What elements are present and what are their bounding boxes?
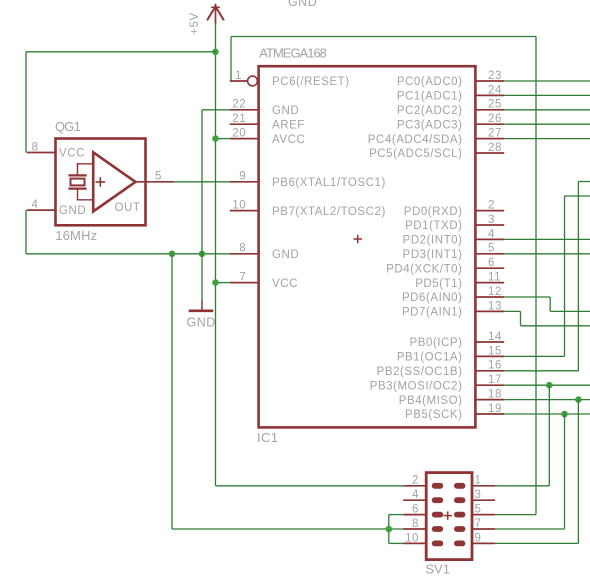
- svg-text:3: 3: [475, 489, 482, 501]
- svg-text:18: 18: [488, 389, 502, 401]
- wire ADC net y=109.8: [504, 109, 590, 111]
- IC1 pin 17 PB3(MOSI/OC2) stub: [475, 384, 504, 386]
- ground symbol GND (middle): [187, 301, 216, 330]
- IC1 pin 6 PD4(XCK/T0) stub: [475, 267, 504, 269]
- IC1 pin 4 PD2(INT0) stub: [475, 238, 504, 240]
- svg-text:AVCC: AVCC: [272, 134, 305, 146]
- svg-text:20: 20: [232, 128, 246, 140]
- svg-text:PD2(INT0): PD2(INT0): [403, 235, 463, 247]
- svg-text:+5V: +5V: [189, 12, 201, 34]
- wire GND bottom run to SV1 pin 8: [172, 528, 403, 530]
- svg-text:12: 12: [488, 286, 502, 298]
- svg-text:5: 5: [155, 171, 162, 183]
- wire RESET top run: [231, 36, 536, 38]
- svg-text:2: 2: [412, 475, 419, 487]
- wire RESET up from pin 1: [230, 37, 232, 82]
- svg-text:PB5(SCK): PB5(SCK): [405, 409, 462, 421]
- IC1 pin 25 PC2(ADC2) stub: [475, 109, 504, 111]
- junction SV1 GND: [386, 526, 393, 533]
- svg-text:PB4(MISO): PB4(MISO): [399, 395, 463, 407]
- IC1 pin 22 GND stub: [230, 109, 259, 111]
- wire QG1 pin4 to GND net: [25, 210, 27, 254]
- svg-text:PD0(RXD): PD0(RXD): [404, 206, 463, 218]
- SV1 pin 1 stub: [472, 485, 495, 487]
- svg-text:GND: GND: [272, 249, 299, 261]
- svg-text:PD1(TXD): PD1(TXD): [405, 220, 462, 232]
- wire PB1/OC1A net: [504, 355, 564, 357]
- op IC1 ATMEGA168 body: [259, 66, 476, 427]
- wire pin22 drop to GND symbol: [201, 110, 203, 301]
- svg-text:GND: GND: [187, 316, 216, 330]
- svg-text:AREF: AREF: [272, 119, 305, 131]
- svg-text:15: 15: [488, 345, 502, 357]
- svg-text:PC4(ADC4/SDA): PC4(ADC4/SDA): [368, 134, 463, 146]
- IC1 pin 26 PC3(ADC3) stub: [475, 123, 504, 125]
- wire left drop to QG1 pin 8: [25, 52, 27, 153]
- IC1 pin 11 PD5(T1) stub: [475, 282, 504, 284]
- wire RESET to SV1 pin 5: [495, 514, 536, 516]
- svg-text:25: 25: [488, 99, 502, 111]
- IC1 pin 5 PD3(INT1) stub: [475, 253, 504, 255]
- svg-text:8: 8: [32, 141, 39, 153]
- svg-text:26: 26: [488, 113, 502, 125]
- svg-text:PC0(ADC0): PC0(ADC0): [397, 76, 463, 88]
- SV1 pin 5 stub: [472, 514, 495, 516]
- wire PB2/SS net: [504, 370, 578, 372]
- svg-text:10: 10: [405, 532, 419, 544]
- IC1 pin 2 PD0(RXD) stub: [475, 210, 504, 212]
- wire QG1 OUT to XTAL1: [174, 181, 230, 183]
- wire ADC net y=95.4: [504, 94, 590, 96]
- svg-text:QG1: QG1: [55, 119, 81, 134]
- SV1 pin 6 pad: [432, 512, 443, 518]
- wire +5V to QG1 VCC top run: [26, 51, 216, 53]
- junction MISO: [575, 396, 582, 403]
- svg-text:17: 17: [488, 374, 502, 386]
- svg-text:10: 10: [232, 200, 246, 212]
- SV1 pin 6 stub: [403, 514, 426, 516]
- svg-text:PC6(/RESET): PC6(/RESET): [272, 76, 350, 88]
- QG1 pin 5 OUT stub: [136, 181, 175, 183]
- svg-text:PD5(T1): PD5(T1): [415, 278, 462, 290]
- wire GND drop to SV1 row: [171, 254, 173, 529]
- svg-text:GND: GND: [59, 205, 86, 217]
- wire PD2 net: [504, 238, 590, 240]
- svg-text:VCC: VCC: [59, 147, 85, 159]
- SV1 pin 4 pad: [432, 497, 443, 503]
- IC1 pin 3 PD1(TXD) stub: [475, 224, 504, 226]
- IC1 pin 12 PD6(AIN0) stub: [475, 296, 504, 298]
- IC1 pin 20 AVCC stub: [230, 138, 259, 140]
- wire MISO drop to SV1 pin 9: [577, 400, 579, 544]
- svg-text:PB7(XTAL2/TOSC2): PB7(XTAL2/TOSC2): [272, 206, 386, 218]
- QG1 plus mark: [96, 178, 104, 186]
- svg-text:4: 4: [412, 489, 419, 501]
- svg-text:28: 28: [488, 142, 502, 154]
- IC1 pin 10 PB7(XTAL2/TOSC2) stub: [230, 210, 259, 212]
- wire IC GND pin22 branch: [202, 109, 230, 111]
- junction SCK: [561, 411, 568, 418]
- svg-text:19: 19: [488, 403, 502, 415]
- svg-text:24: 24: [488, 84, 502, 96]
- svg-text:5: 5: [488, 243, 495, 255]
- SV1 pin 1 pad: [454, 483, 465, 489]
- wire AVCC branch: [216, 138, 230, 140]
- IC1 pin 8 GND stub: [230, 253, 259, 255]
- wire SCK drop to SV1 pin 7: [564, 414, 566, 529]
- wire ADC net y=124.2: [504, 123, 590, 125]
- svg-text:IC1: IC1: [257, 430, 278, 445]
- svg-text:23: 23: [488, 70, 502, 82]
- SV1 pin 9 stub: [472, 542, 495, 544]
- SV1 pin 9 pad: [454, 541, 465, 547]
- IC1 pin 9 PB6(XTAL1/TOSC1) stub: [230, 181, 259, 183]
- SV1 pin 8 stub: [403, 528, 426, 530]
- svg-text:14: 14: [488, 331, 502, 343]
- wire +5V rail vertical: [215, 52, 217, 486]
- svg-text:PC3(ADC3): PC3(ADC3): [397, 119, 463, 131]
- svg-text:PB3(MOSI/OC2): PB3(MOSI/OC2): [370, 380, 463, 392]
- svg-text:22: 22: [232, 99, 246, 111]
- SV1 pin 2 stub: [403, 485, 426, 487]
- IC1 pin 28 PC5(ADC5/SCL) stub: [475, 152, 504, 154]
- svg-text:ATMEGA168: ATMEGA168: [259, 45, 326, 60]
- svg-text:21: 21: [232, 113, 246, 125]
- SV1 GND link pins 6-10: [388, 515, 390, 544]
- IC1 pin 24 PC1(ADC1) stub: [475, 94, 504, 96]
- wire GND net horizontal run: [26, 253, 230, 255]
- svg-text:SV1: SV1: [425, 562, 450, 577]
- svg-text:16: 16: [488, 360, 502, 372]
- svg-text:OUT: OUT: [115, 202, 141, 214]
- IC1 pin 1 PC6(/RESET) stub + bubble: [230, 80, 248, 82]
- SV1 pin 7 stub: [472, 528, 495, 530]
- wire PD7 net jog: [504, 310, 520, 312]
- svg-text:6: 6: [488, 257, 495, 269]
- wire RESET right drop: [535, 37, 537, 515]
- svg-text:PB6(XTAL1/TOSC1): PB6(XTAL1/TOSC1): [272, 177, 386, 189]
- svg-text:2: 2: [488, 200, 495, 212]
- QG1 pin 4 GND stub: [27, 209, 56, 211]
- wire PD3 net: [504, 253, 590, 255]
- wire MOSI drop to SV1 pin 1: [548, 385, 550, 486]
- SV1 pin 3 pad: [454, 497, 465, 503]
- SV1 pin 10 pad: [432, 541, 443, 547]
- svg-text:PD6(AIN0): PD6(AIN0): [402, 292, 463, 304]
- wire ADC net y=138.6: [504, 138, 590, 140]
- svg-text:PB1(OC1A): PB1(OC1A): [397, 352, 463, 364]
- svg-text:GND: GND: [272, 105, 299, 117]
- wire VCC pin7 branch: [216, 282, 230, 284]
- SV1 pin 7 pad: [454, 526, 465, 532]
- wire PB3/MOSI net: [504, 384, 590, 386]
- svg-text:PC1(ADC1): PC1(ADC1): [397, 91, 463, 103]
- IC1 pin 19 PB5(SCK) stub: [475, 413, 504, 415]
- svg-text:5: 5: [475, 504, 482, 516]
- QG1 pin 8 VCC stub: [27, 152, 56, 154]
- svg-text:1: 1: [235, 70, 242, 82]
- SV1 pin 3 stub: [472, 499, 495, 501]
- wire +5V to SV1 pin 2: [216, 485, 404, 487]
- svg-text:8: 8: [412, 518, 419, 530]
- IC1 pin 16 PB2(SS/OC1B) stub: [475, 370, 504, 372]
- svg-text:PD4(XCK/T0): PD4(XCK/T0): [386, 263, 462, 275]
- svg-text:8: 8: [239, 243, 246, 255]
- QG1 crystal element: [70, 164, 94, 200]
- svg-text:9: 9: [239, 171, 246, 183]
- svg-text:9: 9: [475, 532, 482, 544]
- svg-text:GND: GND: [288, 0, 317, 9]
- QG1 amplifier triangle: [93, 152, 135, 211]
- IC1 pin 27 PC4(ADC4/SDA) stub: [475, 138, 504, 140]
- SV1 pin 5 pad: [454, 512, 465, 518]
- svg-text:4: 4: [32, 199, 39, 211]
- junction GND at x172: [169, 251, 176, 258]
- SV1 pin 2 pad: [432, 483, 443, 489]
- svg-text:11: 11: [488, 272, 501, 284]
- svg-text:PD3(INT1): PD3(INT1): [403, 249, 463, 261]
- svg-text:4: 4: [488, 228, 495, 240]
- connector SV1 body: [426, 473, 472, 560]
- IC1 pin 15 PB1(OC1A) stub: [475, 355, 504, 357]
- svg-text:PC5(ADC5/SCL): PC5(ADC5/SCL): [369, 148, 462, 160]
- junction AVCC: [212, 135, 219, 142]
- svg-text:27: 27: [488, 128, 502, 140]
- IC1 origin cross: [354, 236, 361, 243]
- SV1 pin 10 stub: [403, 542, 426, 544]
- supply +5V symbol P1: [189, 5, 224, 35]
- svg-text:1: 1: [475, 475, 482, 487]
- svg-text:PB2(SS/OC1B): PB2(SS/OC1B): [377, 366, 463, 378]
- svg-text:VCC: VCC: [272, 278, 298, 290]
- svg-text:6: 6: [412, 504, 419, 516]
- SV1 origin cross: [444, 512, 451, 519]
- wire PD6 net jog: [504, 296, 550, 298]
- oscillator QG1 body: [56, 139, 146, 226]
- wire PB4/MISO net: [504, 399, 590, 401]
- IC1 pin 7 VCC stub: [230, 282, 259, 284]
- wire +5V stem: [215, 23, 217, 52]
- junction MOSI: [546, 382, 553, 389]
- svg-text:16MHz: 16MHz: [55, 228, 97, 243]
- svg-text:7: 7: [239, 272, 246, 284]
- IC1 pin 18 PB4(MISO) stub: [475, 399, 504, 401]
- IC1 pin 14 PB0(ICP) stub: [475, 341, 504, 343]
- svg-text:13: 13: [488, 300, 502, 312]
- IC1 pin 21 AREF stub: [230, 123, 259, 125]
- junction GND at x202: [199, 251, 206, 258]
- SV1 pin 4 stub: [403, 499, 426, 501]
- svg-text:PD7(AIN1): PD7(AIN1): [402, 307, 463, 319]
- svg-text:3: 3: [488, 214, 495, 226]
- SV1 pin 8 pad: [432, 526, 443, 532]
- svg-text:PB0(ICP): PB0(ICP): [410, 337, 463, 349]
- IC1 pin 13 PD7(AIN1) stub: [475, 310, 504, 312]
- junction VCC pin7: [212, 279, 219, 286]
- junction +5V/QG1: [212, 49, 219, 56]
- svg-text:PC2(ADC2): PC2(ADC2): [397, 105, 463, 117]
- IC1 pin 23 PC0(ADC0) stub: [475, 80, 504, 82]
- wire PB5/SCK net: [504, 413, 590, 415]
- wire ADC net y=81.0: [504, 80, 590, 82]
- svg-text:7: 7: [475, 518, 482, 530]
